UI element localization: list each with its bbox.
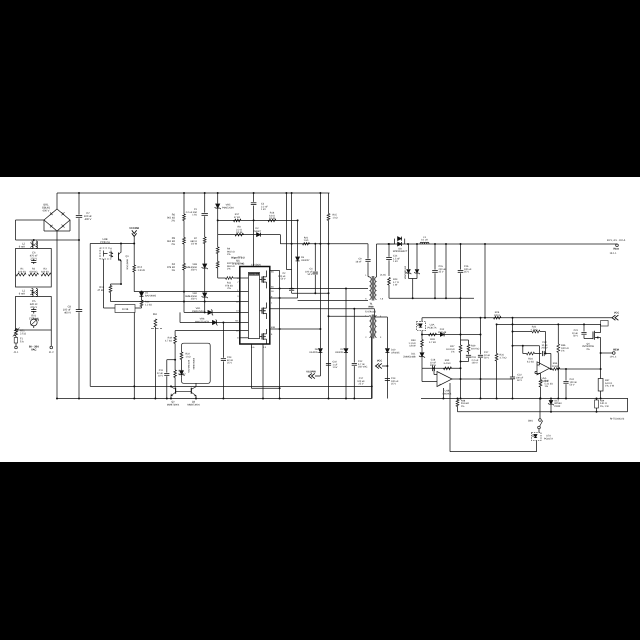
wire Q4 gate loop bbox=[601, 321, 609, 327]
wire U2B emitter down bbox=[104, 259, 116, 308]
EMI filter box 1 bbox=[16, 249, 52, 288]
capacitor C1 bbox=[186, 192, 208, 237]
IC U1 CONTROL block bbox=[248, 273, 259, 339]
power rail VCC arrow bbox=[376, 360, 389, 369]
switch SW1 bbox=[528, 398, 543, 433]
capacitor C12 bbox=[352, 309, 368, 400]
zener D9 bbox=[404, 244, 420, 298]
wire primary row bbox=[280, 243, 368, 245]
diode D4 bbox=[335, 289, 348, 400]
power rail VCCPRI arrow bbox=[129, 227, 139, 244]
wire C11 row bbox=[167, 359, 176, 361]
capacitor C22 bbox=[510, 318, 524, 400]
diode D8 bbox=[388, 237, 408, 254]
power rail VCCPRI arrow 2 bbox=[306, 371, 320, 379]
wire secondary ground bus right bbox=[421, 398, 628, 400]
wire VCCPRI row bbox=[90, 243, 135, 245]
capacitor C5 bbox=[30, 300, 38, 314]
capacitor C7 bbox=[76, 192, 93, 240]
wire drain to IC bbox=[253, 220, 255, 266]
capacitor C11 bbox=[157, 360, 170, 400]
wire output bus bbox=[388, 243, 617, 245]
diode D5 bbox=[296, 219, 311, 298]
wire R10 to pin8 bbox=[218, 268, 226, 278]
resistor R23 bbox=[388, 278, 399, 299]
zener VR3 bbox=[185, 244, 208, 293]
IC U1 inner pin wires bbox=[240, 278, 249, 338]
transistor Q4 bbox=[582, 324, 601, 353]
capacitor C3 bbox=[251, 192, 269, 220]
resistor R39 bbox=[595, 399, 610, 412]
wire VCC top row bbox=[422, 317, 612, 319]
resistor R8 bbox=[235, 226, 244, 236]
op-amp U5A bbox=[537, 362, 550, 383]
resistor R4 bbox=[167, 244, 185, 272]
svg-text:MMSZ4684: MMSZ4684 bbox=[192, 358, 195, 370]
wire loop rounded bbox=[182, 343, 211, 383]
svg-text:VCC: VCC bbox=[614, 312, 619, 315]
capacitor C18 bbox=[430, 359, 437, 372]
capacitor C20 bbox=[541, 341, 552, 370]
resistor R1 bbox=[16, 268, 26, 276]
wire R17 row bbox=[217, 219, 298, 221]
resistor R20 bbox=[174, 370, 186, 388]
svg-text:(3,10): (3,10) bbox=[380, 274, 386, 277]
IC U1 body bbox=[240, 267, 270, 345]
wire IC bottom pin 4 bbox=[262, 344, 264, 400]
svg-text:-: - bbox=[539, 365, 540, 368]
resistor R11 bbox=[225, 277, 240, 290]
ferrite bead FB1 bbox=[151, 313, 162, 400]
capacitor C19 bbox=[460, 352, 479, 365]
svg-text:Vbus: Vbus bbox=[613, 248, 620, 251]
terminal J1-1 bbox=[14, 343, 19, 354]
svg-text:BZX384-C15: BZX384-C15 bbox=[187, 360, 190, 373]
wire x286 bbox=[285, 192, 291, 270]
resistor R28 bbox=[429, 333, 437, 344]
zener VR2 bbox=[185, 292, 208, 313]
svg-text:NC: NC bbox=[235, 320, 239, 323]
resistor R31 bbox=[495, 323, 506, 399]
svg-text:T2 ER14.5: T2 ER14.5 bbox=[365, 311, 377, 314]
svg-text:VCCPRI: VCCPRI bbox=[306, 371, 316, 374]
transformer T1 bbox=[365, 274, 386, 301]
inductor L2 bbox=[19, 241, 38, 249]
IC U1 part label bbox=[231, 257, 245, 266]
wire bridge box sides bbox=[44, 220, 70, 231]
label T1 bbox=[368, 303, 374, 309]
resistor R34 bbox=[523, 346, 542, 364]
resistor R37 bbox=[598, 353, 615, 400]
wire U3A top bbox=[421, 318, 423, 322]
wire top bus bbox=[57, 192, 330, 194]
zener VR1 bbox=[192, 307, 213, 315]
diode D2 bbox=[253, 227, 262, 237]
wire Q1 emitter to R13 bbox=[111, 283, 123, 285]
svg-text:FB1: FB1 bbox=[153, 313, 158, 316]
wire T2 tap bbox=[328, 315, 370, 317]
resistor R21 bbox=[303, 237, 310, 245]
wire T2 right top bbox=[270, 308, 375, 317]
resistor R29 bbox=[461, 340, 480, 352]
resistor R32 bbox=[512, 326, 547, 355]
resistor R14 bbox=[135, 297, 152, 309]
black letterbox band top bbox=[0, 0, 640, 177]
wire pin 9 bbox=[270, 297, 298, 299]
op-amp U4B bbox=[437, 372, 452, 396]
resistor R3 bbox=[41, 268, 51, 276]
diode D6 bbox=[309, 192, 322, 376]
wire IC bottom pin 5-6 bbox=[251, 344, 280, 389]
wire opamp U4B plus bbox=[422, 368, 437, 381]
resistor R15 bbox=[327, 193, 338, 400]
wire pin 6D top bbox=[270, 271, 281, 400]
wire pin1 row bbox=[134, 291, 240, 293]
resistor R36 bbox=[557, 324, 569, 399]
capacitor C15 bbox=[432, 244, 446, 298]
diode D1 bbox=[140, 292, 157, 298]
IC U1 mosfet 3 bbox=[260, 329, 267, 344]
IC U1 bottom pin numbers bbox=[251, 346, 267, 349]
capacitor C17 bbox=[478, 318, 491, 400]
wire sec mid bbox=[445, 244, 447, 299]
wire choke L2 stub bbox=[33, 239, 35, 241]
inductor L1 bbox=[19, 289, 38, 297]
resistor R10 bbox=[216, 254, 234, 271]
EMI filter box 2 bbox=[16, 297, 52, 331]
transistor Q2 bbox=[170, 385, 176, 399]
wire U5A minus feed bbox=[512, 345, 540, 365]
varistor RV1 bbox=[29, 315, 39, 329]
svg-text:19 V, 4.5 - 8.0 A: 19 V, 4.5 - 8.0 A bbox=[607, 239, 626, 242]
resistor R38 bbox=[456, 399, 469, 412]
wire U5A plus bbox=[535, 372, 541, 380]
component TP box bbox=[115, 305, 135, 313]
svg-text:19-1.1: 19-1.1 bbox=[609, 252, 617, 255]
wire mid row bbox=[497, 323, 601, 325]
wire pin 6SB bbox=[270, 328, 322, 330]
wire D11 bottom row bbox=[422, 367, 462, 369]
wire T2 bottom to bus bbox=[371, 337, 373, 399]
wire VR6 row bbox=[180, 312, 240, 322]
white schematic page bbox=[0, 177, 640, 462]
svg-text:REM: REM bbox=[613, 349, 619, 352]
transistor Q3 bbox=[191, 383, 197, 399]
label C17 bbox=[357, 377, 365, 386]
terminal J1-2 bbox=[49, 330, 54, 354]
resistor R26 bbox=[494, 311, 502, 319]
wire pin 6D mid bbox=[270, 288, 368, 290]
optocoupler U2B bbox=[100, 238, 113, 259]
wire secondary ground bus bbox=[389, 297, 474, 299]
svg-text:19-1.4: 19-1.4 bbox=[610, 356, 617, 359]
svg-text:RI-TD344223: RI-TD344223 bbox=[610, 418, 625, 421]
wire bridge left arm bbox=[16, 220, 45, 240]
resistor R6 bbox=[167, 192, 185, 222]
wire T1 sec top bbox=[377, 244, 389, 277]
wire U4B out bbox=[452, 378, 513, 380]
svg-text:VCC: VCC bbox=[377, 360, 382, 363]
capacitor C16 bbox=[458, 244, 472, 298]
wire pin10 row bbox=[111, 301, 240, 303]
wire primary ground bus bbox=[56, 398, 372, 400]
optocoupler U3A bbox=[417, 322, 437, 331]
black letterbox band bottom bbox=[0, 462, 640, 640]
terminal REM bbox=[600, 349, 619, 359]
resistor R7 bbox=[191, 237, 207, 246]
capacitor C2 bbox=[278, 192, 294, 293]
IC U1 top pin label bbox=[251, 263, 261, 266]
wire Q2 Q3 base link bbox=[176, 391, 192, 393]
svg-text:CONTROL: CONTROL bbox=[249, 273, 260, 276]
fuse F1 bbox=[14, 329, 24, 344]
capacitor C6 bbox=[30, 252, 38, 265]
resistor R2 bbox=[29, 268, 39, 276]
capacitor C8 bbox=[63, 240, 82, 399]
wire bridge top to bus bbox=[56, 193, 58, 209]
transformer T2 bbox=[365, 315, 382, 340]
IC U1 left pin numbers bbox=[235, 277, 239, 340]
optocoupler U7A bbox=[532, 433, 554, 441]
wire fb divider bbox=[484, 244, 486, 319]
wire sense rail bbox=[458, 399, 628, 413]
diode D10 bbox=[375, 317, 401, 399]
wire aux bus bbox=[90, 385, 372, 387]
zener D13 bbox=[548, 399, 562, 412]
resistor R9 bbox=[216, 235, 234, 257]
capacitor C10 bbox=[326, 361, 338, 370]
svg-text:-: - bbox=[440, 374, 441, 377]
IC U1 mosfet 2 bbox=[260, 303, 267, 320]
capacitor C23 bbox=[221, 322, 234, 400]
IC U1 mosfet 1 bbox=[260, 271, 267, 289]
label schematic id bbox=[610, 418, 625, 421]
wire AC row bbox=[16, 239, 81, 241]
zener VR6 bbox=[195, 318, 218, 326]
wire R13 down bbox=[110, 293, 112, 302]
svg-text:SW1: SW1 bbox=[528, 420, 534, 423]
svg-text:J1-1: J1-1 bbox=[14, 351, 19, 354]
resistor R33 bbox=[409, 331, 424, 348]
resistor R35 bbox=[550, 362, 602, 370]
bridge rectifier BR1 bbox=[42, 204, 70, 232]
label Q2 bbox=[167, 401, 180, 407]
wire R8 row bbox=[218, 234, 281, 236]
wire left loop down bbox=[89, 244, 91, 387]
svg-text:J1-2: J1-2 bbox=[49, 351, 54, 354]
resistor R12 bbox=[133, 244, 145, 292]
capacitor C14 bbox=[386, 243, 400, 276]
resistor R22 bbox=[180, 352, 191, 364]
transistor Q1 bbox=[119, 244, 130, 285]
resistor R30 bbox=[444, 359, 452, 370]
resistor R27 bbox=[446, 298, 462, 399]
svg-text:R211 kΩ: R211 kΩ bbox=[304, 237, 309, 243]
diode D12 bbox=[438, 328, 447, 336]
svg-text:MMBTA06: MMBTA06 bbox=[126, 259, 129, 270]
thermistor RT1 bbox=[13, 328, 26, 337]
wire pin16 row bbox=[175, 330, 240, 332]
svg-text:C1122 uF10 V: C1122 uF10 V bbox=[157, 369, 164, 378]
zener VR5 bbox=[215, 192, 235, 235]
wire remote loop bbox=[450, 383, 537, 452]
capacitor C9 bbox=[355, 244, 370, 277]
label AC input bbox=[29, 346, 39, 352]
wire clamp corner bbox=[279, 235, 281, 244]
resistor R17 bbox=[234, 213, 242, 222]
wire opamp U4B minus bbox=[433, 367, 437, 374]
inductor L3 bbox=[420, 236, 429, 244]
terminal output 19V bbox=[607, 239, 626, 255]
label T2 bbox=[365, 311, 377, 314]
resistor R40 bbox=[539, 380, 553, 400]
wire R4 down to VR1 row bbox=[183, 270, 185, 312]
svg-text:D9 SMAJ58A: D9 SMAJ58A bbox=[404, 266, 407, 280]
zener D11 bbox=[403, 347, 425, 368]
resistor R16 bbox=[268, 212, 276, 222]
wire bridge bottom down bbox=[56, 231, 58, 399]
resistor R13 bbox=[97, 284, 111, 293]
capacitor C24 bbox=[563, 368, 577, 400]
wire TP box down bbox=[133, 313, 135, 400]
capacitor C21 bbox=[572, 323, 593, 338]
power rail VCC arrow 2 bbox=[612, 312, 619, 321]
IC U1 right pin numbers bbox=[271, 270, 276, 336]
svg-text:VCCPRI: VCCPRI bbox=[129, 227, 139, 230]
svg-text:C2110 uF50 V: C2110 uF50 V bbox=[572, 329, 579, 338]
wire cap bottom row bbox=[292, 292, 330, 294]
wire VR1 row bbox=[184, 311, 240, 313]
svg-text:13 1B: 13 1B bbox=[122, 308, 129, 311]
resistor R19 bbox=[165, 331, 176, 370]
label Q3 bbox=[187, 401, 200, 407]
capacitor C4 bbox=[305, 243, 318, 294]
zener D3 bbox=[179, 358, 196, 377]
capacitor C13 bbox=[385, 377, 399, 386]
resistor R5 bbox=[167, 221, 185, 246]
wire R28 row bbox=[421, 334, 482, 336]
wire U4B to bus stub bbox=[442, 388, 444, 399]
wire T1 pin1 row bbox=[298, 300, 368, 302]
